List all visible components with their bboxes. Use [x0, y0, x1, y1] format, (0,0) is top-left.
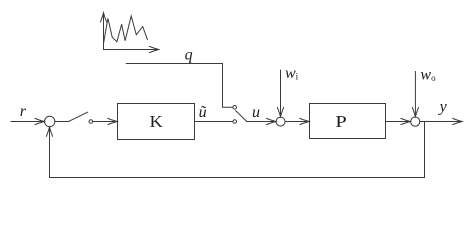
wire P to summing junction S3 — [386, 121, 410, 123]
wire feedback path — [50, 122, 425, 178]
arrowhead w_i into S2 — [277, 107, 283, 116]
svg-text:K: K — [150, 112, 164, 131]
svg-text:wo: wo — [420, 67, 436, 84]
signal generator icon vertical axis — [103, 14, 105, 50]
arrowhead r into S1 — [35, 118, 44, 124]
wire SW2 to summing junction S2 — [247, 121, 275, 123]
block P box — [310, 104, 386, 139]
switch SW2 lower contact — [233, 120, 237, 124]
svg-text:P: P — [335, 113, 346, 132]
wire output y — [420, 121, 461, 123]
switch SW2 upper contact — [233, 106, 237, 110]
svg-text:y: y — [438, 99, 448, 116]
arrowhead icon horizontal axis — [149, 46, 158, 52]
wire q line from generator to switch — [126, 64, 232, 108]
summing junction S1 — [45, 116, 55, 126]
arrowhead w_o into S3 — [412, 107, 418, 116]
svg-text:q: q — [185, 46, 193, 63]
wire r input — [11, 121, 44, 123]
summing junction S3 — [411, 117, 420, 126]
signal waveform — [104, 16, 148, 44]
wire w_o disturbance input — [414, 72, 416, 117]
svg-text:ũ: ũ — [199, 104, 207, 121]
arrowhead into block K — [108, 118, 117, 124]
arrowhead into S3 — [401, 118, 410, 124]
arrowhead into block P — [300, 118, 309, 124]
switch SW1 contact — [89, 120, 93, 124]
wire w_i disturbance input — [280, 70, 282, 116]
wire SW1 to block K — [93, 121, 117, 123]
arrowhead u into S2 — [267, 118, 276, 124]
arrowhead icon vertical axis — [100, 13, 106, 22]
wire S2 to block P — [285, 121, 309, 123]
switch SW1 arm — [69, 112, 88, 121]
arrowhead feedback into S1 — [46, 127, 52, 136]
signal generator icon horizontal axis — [104, 49, 157, 51]
block K box — [118, 104, 195, 140]
svg-text:r: r — [20, 103, 27, 120]
summing junction S2 — [276, 117, 285, 126]
switch SW2 arm — [236, 111, 247, 122]
wire K to switch SW2 — [195, 121, 233, 123]
wire S1 to switch SW1 — [55, 121, 69, 123]
arrowhead output y — [453, 118, 462, 124]
svg-text:wi: wi — [285, 65, 299, 82]
svg-text:u: u — [252, 104, 260, 121]
